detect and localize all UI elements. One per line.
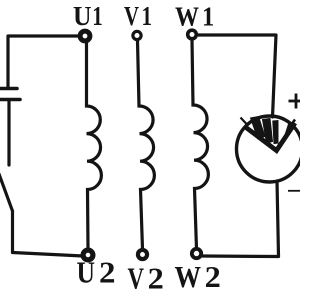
arrow spike 1 <box>251 117 266 140</box>
switch S blade (open) <box>0 174 13 211</box>
svg-text:1: 1 <box>202 2 214 32</box>
winding W (inductor W1-W2) <box>192 40 208 249</box>
wire switch bottom down to corner <box>11 211 14 252</box>
svg-text:U: U <box>77 256 96 290</box>
wire W1 to top-right corner and down to DC machine <box>198 35 276 117</box>
DC exciter G interior arrows <box>241 117 296 151</box>
label V2 <box>128 262 164 296</box>
arrow spike 4 <box>284 120 295 139</box>
terminal U1 <box>80 31 90 41</box>
winding U (inductor U1-U2) <box>87 41 102 248</box>
svg-text:2: 2 <box>148 262 164 296</box>
chevron tail crossing rim <box>241 118 248 125</box>
DC exciter G body (circle) <box>237 116 303 182</box>
polarity + sign <box>289 94 303 109</box>
label U2 <box>77 256 116 290</box>
wire bottom-right corner to W2 terminal <box>202 254 279 258</box>
label U1 <box>73 1 103 31</box>
label W2 <box>175 260 221 294</box>
svg-text:W: W <box>175 260 202 294</box>
svg-text:2: 2 <box>205 260 221 294</box>
wire DC machine bottom down to corner <box>277 181 279 256</box>
terminal V1 <box>133 31 141 39</box>
wire capacitor to switch top contact <box>7 101 10 165</box>
svg-text:1: 1 <box>92 1 103 31</box>
arrow spike 3 <box>273 121 278 144</box>
svg-text:V: V <box>124 1 139 31</box>
svg-text:2: 2 <box>99 256 116 290</box>
wire U1 to top-left corner and down to capacitor <box>8 36 84 87</box>
arrow spike 2 <box>263 119 273 144</box>
polarity - sign <box>288 190 302 192</box>
wire bottom-left corner to U2 terminal <box>13 253 84 257</box>
terminal W1 <box>188 30 197 39</box>
capacitor C1 top plate <box>0 87 17 91</box>
svg-text:W: W <box>175 2 199 32</box>
svg-text:V: V <box>128 262 145 296</box>
label V1 <box>124 1 152 31</box>
winding V (inductor V1-V2) <box>138 41 155 249</box>
terminal V2 <box>138 250 147 259</box>
chevron V stroke <box>244 123 295 151</box>
svg-text:1: 1 <box>142 1 153 31</box>
terminal U2 <box>83 250 93 260</box>
svg-text:U: U <box>73 1 92 31</box>
terminal W2 <box>192 249 201 258</box>
label W1 <box>175 2 214 32</box>
capacitor C1 bottom plate <box>0 98 20 102</box>
